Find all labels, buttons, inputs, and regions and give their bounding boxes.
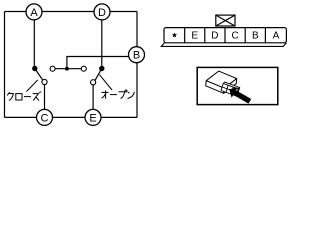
- terminal A: [26, 4, 42, 20]
- terminal B: [129, 47, 145, 63]
- pin row 3d base: [161, 43, 286, 47]
- wire A to left pole: [33, 12, 35, 67]
- terminal D: [94, 4, 110, 20]
- svg-text:D: D: [211, 31, 218, 42]
- svg-text:C: C: [231, 31, 238, 42]
- terminal C: [37, 109, 53, 125]
- svg-text:B: B: [252, 31, 259, 42]
- svg-text:A: A: [30, 7, 38, 19]
- connector icon socket: [221, 82, 240, 96]
- contact open (to E): [91, 80, 96, 85]
- svg-text:B: B: [133, 50, 140, 62]
- wire D to right pole: [101, 12, 103, 67]
- connector icon body: [206, 71, 237, 93]
- wire right side through B: [136, 12, 138, 118]
- svg-text:E: E: [89, 112, 96, 124]
- junction node: [65, 67, 69, 71]
- wire close contact to C: [44, 82, 46, 117]
- wire link bar: [53, 68, 84, 70]
- switch blade left: [35, 69, 43, 81]
- pole node right: [99, 66, 104, 71]
- wire left side: [4, 12, 6, 118]
- leader line open: [99, 75, 112, 90]
- label open (katakana opun): [101, 90, 134, 99]
- pole node left: [32, 66, 37, 71]
- pin star mark: [172, 33, 176, 37]
- svg-text:C: C: [41, 112, 49, 124]
- pointer arrow: [229, 87, 251, 103]
- terminal E: [85, 109, 101, 125]
- wire top bus A-D: [5, 11, 138, 13]
- switch blade right: [95, 69, 102, 81]
- connector pin row: [161, 28, 286, 47]
- wire bottom bus C-E: [5, 116, 138, 118]
- wire junction to B: [67, 57, 130, 69]
- connector icon box: [197, 67, 278, 104]
- svg-text:D: D: [98, 7, 106, 19]
- pin labels: [191, 31, 279, 42]
- leader line close: [27, 80, 38, 92]
- wire open contact to E: [92, 82, 94, 117]
- svg-text:A: A: [273, 31, 280, 42]
- svg-text:E: E: [191, 31, 198, 42]
- label close (katakana kurozu): [7, 92, 41, 101]
- contact left link: [50, 66, 55, 71]
- connector orientation mark: [216, 15, 235, 26]
- contact close (to C): [42, 79, 47, 84]
- contact right link: [81, 66, 86, 71]
